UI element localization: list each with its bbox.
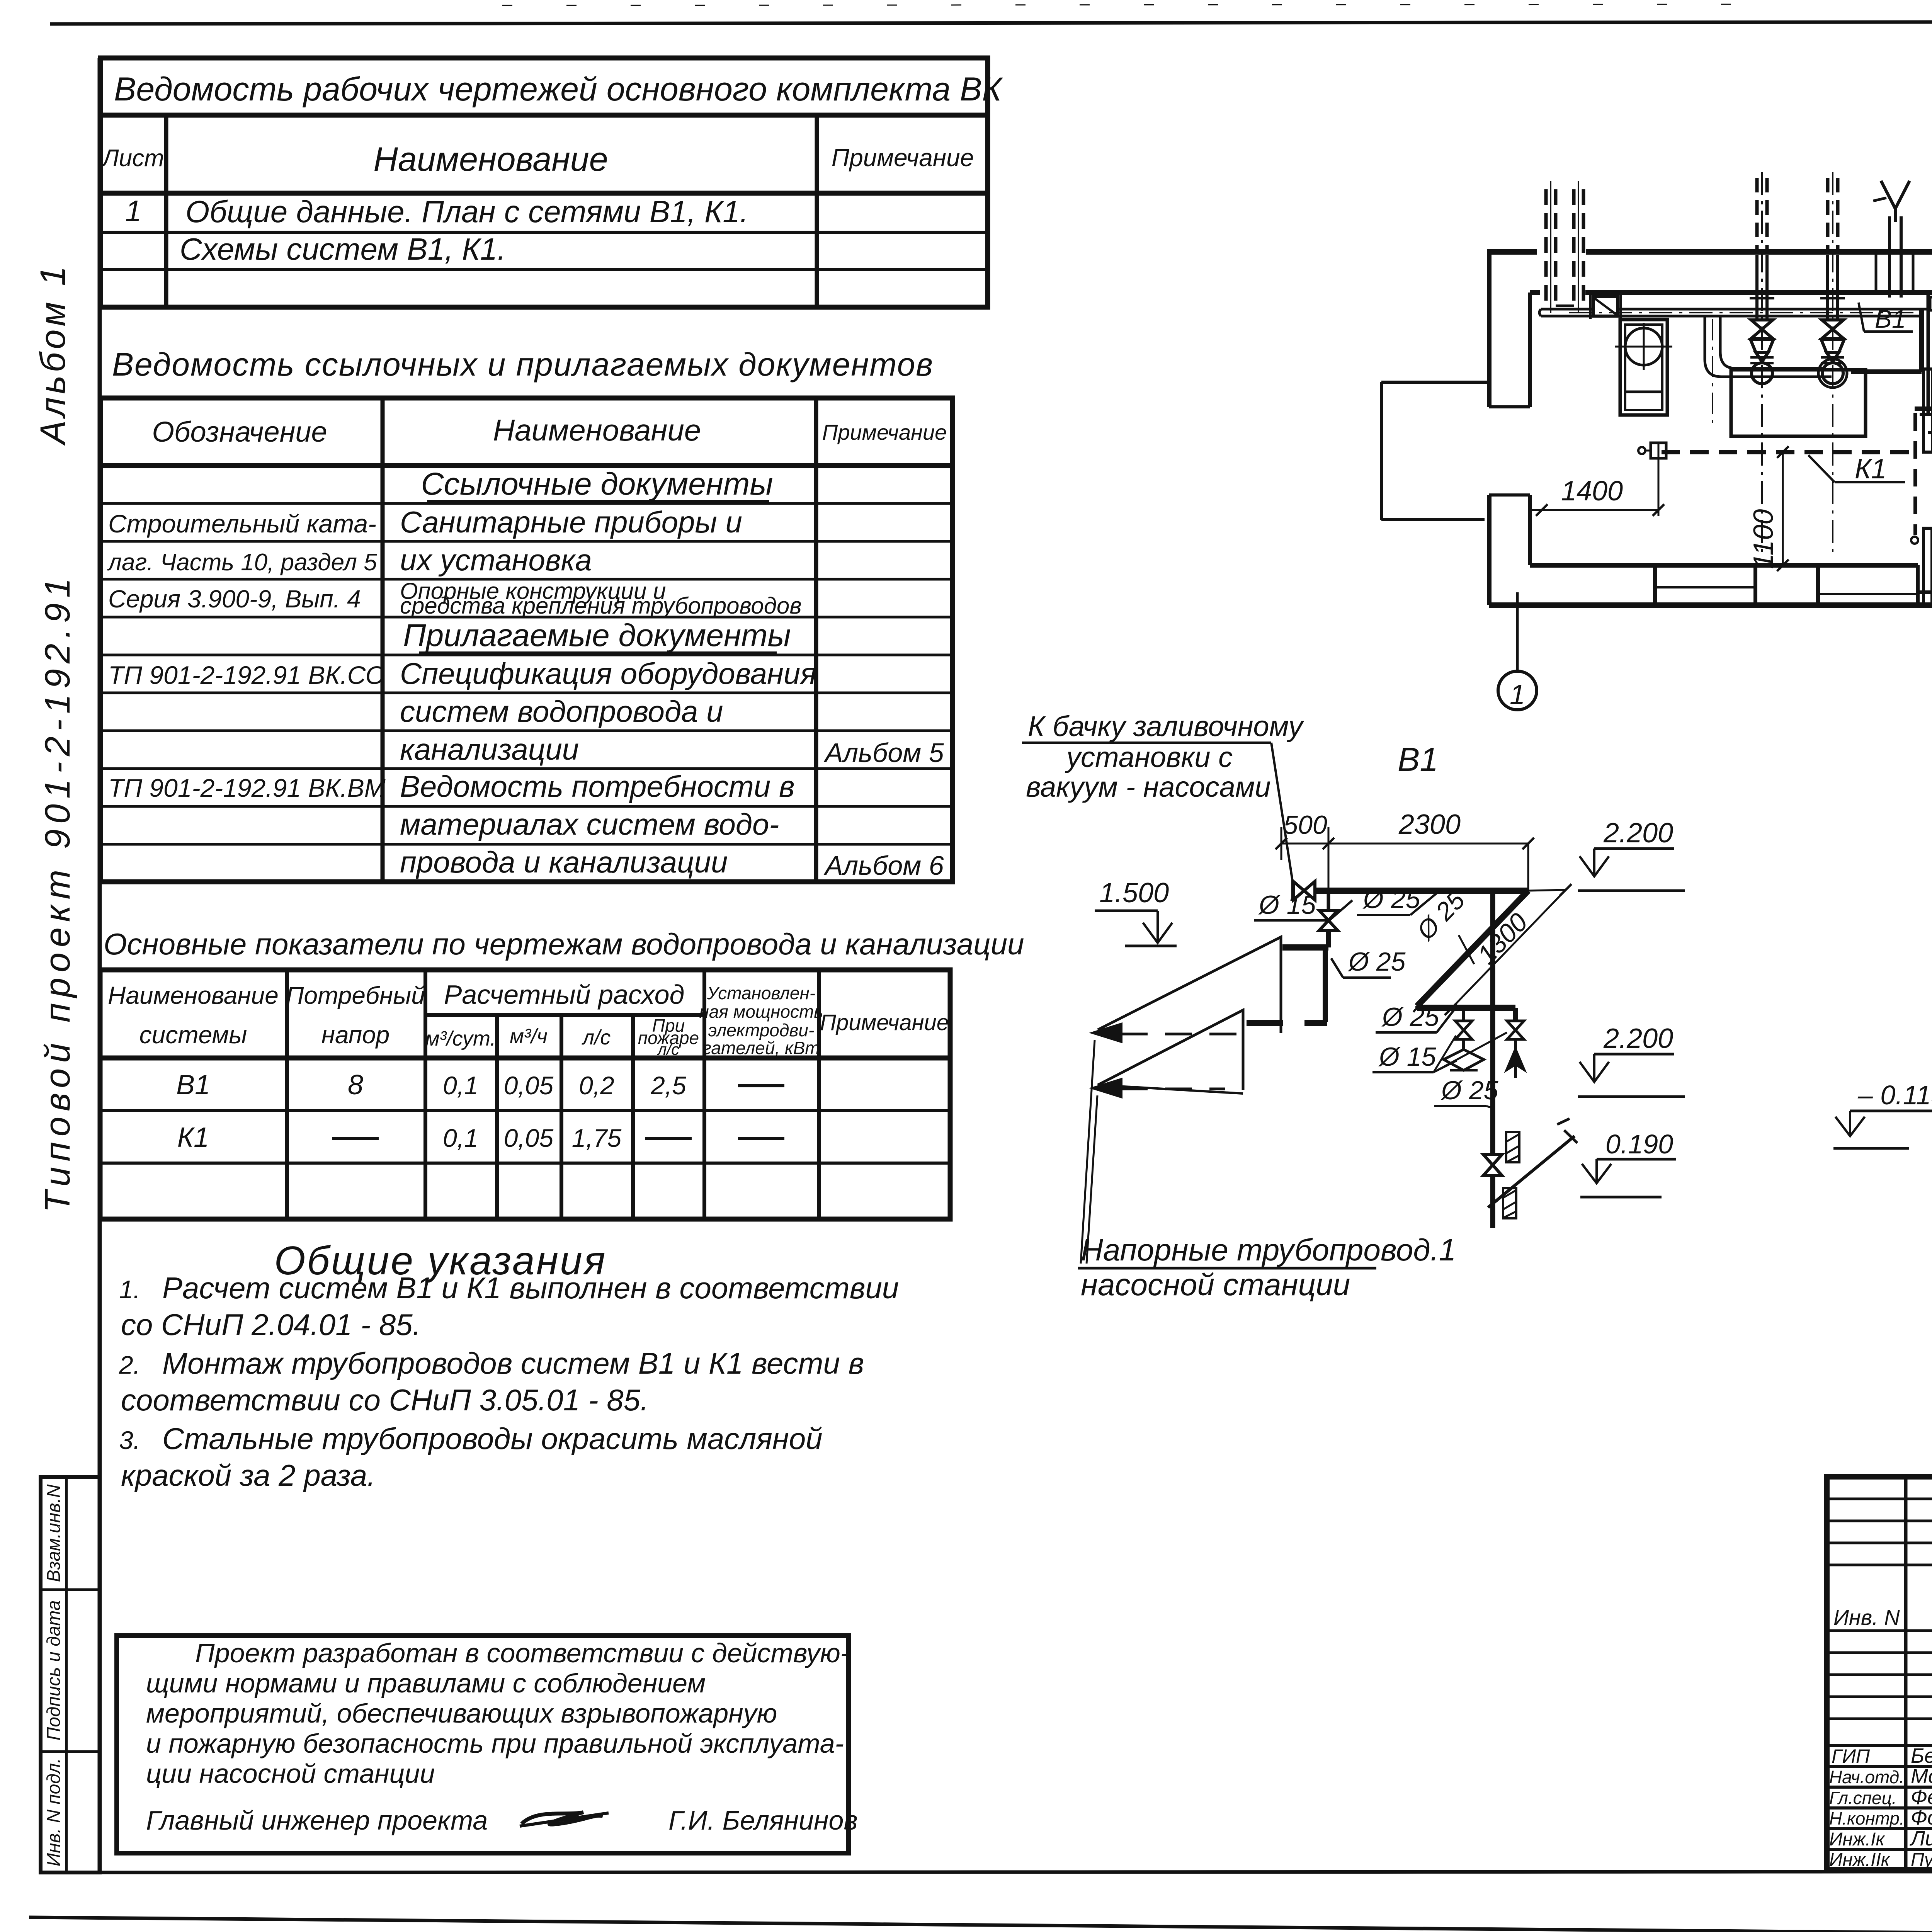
svg-text:м³/сут.: м³/сут.	[425, 1027, 496, 1050]
svg-text:Альбом 1: Альбом 1	[33, 263, 73, 446]
svg-text:щими нормами и правилами с: щими нормами и правилами с соблюдением	[146, 1668, 706, 1698]
B1 branch valve 1	[1444, 1008, 1484, 1070]
frame bottom line	[41, 1871, 1932, 1872]
svg-text:Белянинов: Белянинов	[1911, 1744, 1932, 1767]
plan: pilaster lower	[1923, 528, 1932, 604]
svg-text:Инж.IIк: Инж.IIк	[1829, 1850, 1891, 1870]
plan: pump unit 1 column	[1750, 172, 1774, 553]
svg-text:системы: системы	[139, 1021, 247, 1049]
plan: pump unit 2 column	[1820, 172, 1845, 553]
svg-text:Лист: Лист	[101, 145, 164, 172]
svg-text:Наименование: Наименование	[493, 413, 701, 447]
svg-text:К1: К1	[1855, 454, 1886, 485]
B1 main top pipe	[1315, 888, 1528, 894]
svg-text:Пустовалова: Пустовалова	[1911, 1850, 1932, 1870]
svg-text:Гл.спец.: Гл.спец.	[1829, 1788, 1897, 1808]
title block inv label	[1833, 1605, 1900, 1629]
B1 label d25 riser	[1434, 1076, 1498, 1108]
B1 diagonal pipe	[1417, 891, 1528, 1009]
svg-text:Установлен-: Установлен-	[707, 983, 815, 1003]
svg-text:л/с: л/с	[582, 1026, 611, 1049]
svg-text:ции насосной станции: ции насосной станции	[146, 1759, 435, 1789]
svg-text:Н.контр.: Н.контр.	[1829, 1808, 1905, 1828]
svg-text:ТП 901-2-192.91 ВК.ВМ: ТП 901-2-192.91 ВК.ВМ	[108, 774, 386, 802]
svg-text:Фомина: Фомина	[1911, 1806, 1932, 1829]
svg-text:краской за 2 раза.: краской за 2 раза.	[121, 1458, 376, 1492]
svg-text:Инж.Iк: Инж.Iк	[1829, 1829, 1885, 1850]
svg-text:Федотов: Федотов	[1911, 1786, 1932, 1809]
svg-text:0,1: 0,1	[443, 1071, 478, 1100]
svg-text:0,05: 0,05	[504, 1071, 554, 1100]
plan: B1 label	[1859, 303, 1913, 333]
svg-text:2,5: 2,5	[650, 1071, 686, 1100]
svg-text:8: 8	[348, 1070, 363, 1100]
svg-text:1.500: 1.500	[1099, 878, 1169, 908]
plan: left wall lower corner	[1489, 495, 1530, 605]
svg-text:Общие данные. План с сетям: Общие данные. План с сетями В1, К1.	[185, 194, 748, 229]
svg-text:– 0.115: – 0.115	[1857, 1080, 1932, 1110]
svg-text:Подпись и дата: Подпись и дата	[44, 1600, 64, 1740]
plan: pressure riser pipes dashed pair 2	[1574, 181, 1583, 313]
B1 elevation 0.190	[1580, 1129, 1676, 1197]
svg-text:Потребный: Потребный	[286, 981, 425, 1009]
table: vedomost rabochih chertezhey	[100, 58, 1003, 307]
B1 lower horizontal pipe	[1417, 1008, 1515, 1020]
plan: axis markers B A 1 2	[1498, 280, 1932, 710]
svg-text:провода и канализации: провода и канализации	[400, 845, 728, 879]
svg-text:Взам.инв.N: Взам.инв.N	[44, 1484, 64, 1582]
project note box	[117, 1636, 858, 1853]
svg-text:их установка: их установка	[400, 543, 592, 577]
svg-text:Ссылочные документы: Ссылочные документы	[421, 466, 773, 502]
svg-text:средства крепления трубопров: средства крепления трубопроводов	[400, 593, 802, 619]
B1 pressure pipe triangle 2	[1093, 1010, 1243, 1097]
B1 wall hatch	[1503, 1132, 1519, 1218]
plan: pump pedestal	[1731, 370, 1866, 436]
svg-text:1400: 1400	[1561, 476, 1623, 507]
svg-text:насосной станции: насосной станции	[1081, 1267, 1350, 1302]
svg-text:Альбом 6: Альбом 6	[823, 850, 944, 881]
svg-text:ТП 901-2-192.91 ВК.СО: ТП 901-2-192.91 ВК.СО	[108, 661, 385, 689]
svg-text:Проект разработан в соответс: Проект разработан в соответствии с дейст…	[195, 1638, 849, 1668]
plan: left wall upper	[1489, 249, 1530, 407]
svg-text:установки с: установки с	[1065, 741, 1233, 773]
plan: B1 pipe corner down to pumps	[1851, 309, 1929, 372]
B1 label d25 drop	[1331, 947, 1406, 978]
B1 diagonal dim 1300	[1445, 884, 1571, 1015]
title block outer	[1827, 1477, 1932, 1870]
left margin stamp boxes	[41, 1477, 100, 1872]
svg-text:Г.И. Белянинов: Г.И. Белянинов	[668, 1805, 858, 1835]
svg-text:500: 500	[1283, 810, 1327, 840]
plan: K1 horizontal dashed pipe	[1638, 443, 1915, 458]
plan: suction pipe B1 horizontal	[1539, 294, 1922, 319]
svg-text:Линкина: Линкина	[1910, 1827, 1932, 1850]
svg-text:гателей, кВт: гателей, кВт	[702, 1038, 820, 1058]
svg-text:0.190: 0.190	[1605, 1129, 1673, 1159]
svg-text:Типовой проект 901-2-192.9: Типовой проект 901-2-192.91	[38, 573, 77, 1213]
plan: top wall	[1489, 252, 1932, 293]
B1 dim 500 2300	[1276, 809, 1534, 893]
svg-text:2300: 2300	[1398, 809, 1461, 840]
svg-text:1,75: 1,75	[572, 1124, 622, 1152]
svg-text:и пожарную безопасность при: и пожарную безопасность при правильной э…	[146, 1728, 844, 1759]
svg-text:0,1: 0,1	[443, 1124, 478, 1152]
title block ladder rows	[1827, 1499, 1932, 1849]
svg-text:1100: 1100	[1748, 509, 1779, 569]
svg-text:Монтаж трубопроводов систе: Монтаж трубопроводов систем В1 и К1 вест…	[162, 1346, 864, 1380]
svg-text:л/с: л/с	[656, 1040, 679, 1058]
svg-text:3.: 3.	[119, 1426, 140, 1454]
svg-text:электродви-: электродви-	[708, 1020, 815, 1040]
svg-text:2.: 2.	[119, 1350, 140, 1379]
svg-text:Наименование: Наименование	[373, 140, 608, 178]
svg-text:Обозначение: Обозначение	[152, 416, 327, 448]
title block vertical dividers	[1906, 1477, 1932, 1870]
svg-text:Прилагаемые документы: Прилагаемые документы	[403, 618, 791, 653]
svg-text:1.: 1.	[119, 1275, 140, 1304]
svg-text:Ø 15: Ø 15	[1258, 890, 1316, 920]
title block signature labels	[1829, 1744, 1932, 1870]
svg-text:Ø 15: Ø 15	[1378, 1042, 1436, 1071]
svg-text:лаг. Часть 10, раздел 5: лаг. Часть 10, раздел 5	[107, 549, 377, 576]
plan: dim 1400	[1530, 458, 1664, 516]
svg-text:Ø 25: Ø 25	[1381, 1002, 1439, 1032]
svg-text:К1: К1	[177, 1122, 209, 1153]
svg-text:вакуум - насосами: вакуум - насосами	[1026, 771, 1271, 803]
B1 riser valve	[1483, 1155, 1502, 1175]
sheet top border line	[50, 21, 1932, 24]
B1 label d25 after valve	[1357, 884, 1437, 915]
plan: pressure riser pipes dashed pair 1	[1546, 181, 1556, 313]
plan: dim 1100	[1748, 446, 1789, 571]
svg-text:Ведомость ссылочных и прилаг: Ведомость ссылочных и прилагаемых докуме…	[112, 346, 934, 383]
svg-text:Схемы систем В1, К1.: Схемы систем В1, К1.	[180, 232, 506, 266]
plan: K1 label	[1808, 454, 1905, 485]
svg-text:Примечание: Примечание	[832, 144, 974, 172]
svg-text:К бачку заливочному: К бачку заливочному	[1028, 710, 1304, 742]
left frame vertical line	[98, 58, 102, 1872]
svg-text:канализации: канализации	[400, 732, 579, 766]
plan: drainage channel	[1920, 414, 1932, 433]
B1 riser vertical	[1490, 891, 1495, 1228]
B1 elevation 2.200 upper	[1578, 818, 1685, 891]
plan: interior partition	[1928, 293, 1932, 413]
plan: fan unit box	[1615, 320, 1672, 415]
svg-text:Инв. N подл.: Инв. N подл.	[44, 1758, 64, 1867]
svg-text:В1: В1	[176, 1070, 210, 1100]
B1 note k bachku	[1022, 710, 1304, 881]
B1 elevation 2.200 lower	[1578, 1023, 1685, 1097]
svg-text:мероприятий, обеспечивающих в: мероприятий, обеспечивающих взрывопожарн…	[146, 1698, 777, 1728]
plan: suction manifold elbow	[1705, 316, 1832, 425]
svg-text:Расчетный расход: Расчетный расход	[444, 980, 685, 1010]
B1 pressure pipe triangle 1	[1093, 937, 1281, 1042]
svg-text:0,2: 0,2	[579, 1071, 614, 1100]
B1 elevation mark 1.500	[1095, 878, 1177, 946]
svg-text:Ведомость рабочих чертежей осн: Ведомость рабочих чертежей основного ком…	[114, 71, 1003, 108]
B1 label d25 diagonal	[1411, 886, 1474, 964]
svg-text:В1: В1	[1875, 304, 1906, 333]
svg-text:соответствии со СНиП 3.05: соответствии со СНиП 3.05.01 - 85.	[121, 1383, 649, 1417]
svg-text:напор: напор	[321, 1021, 390, 1049]
svg-text:2.200: 2.200	[1603, 1023, 1673, 1054]
K1 elevation -0.115	[1833, 1080, 1932, 1148]
svg-text:Строительный ката-: Строительный ката-	[108, 509, 376, 538]
B1 valve at inlet	[1293, 880, 1315, 901]
table: osnovnye pokazateli	[100, 927, 1024, 1219]
plan: St K1 dashed pipe	[1915, 405, 1932, 412]
svg-text:1: 1	[1510, 679, 1525, 710]
svg-text:Спецификация оборудования: Спецификация оборудования	[400, 656, 816, 690]
B1 label d15 inlet	[1254, 890, 1352, 920]
svg-text:Серия 3.900-9, Вып. 4: Серия 3.900-9, Вып. 4	[108, 585, 361, 613]
svg-text:Ø 25: Ø 25	[1362, 884, 1420, 914]
vertical label Tipovoy proekt 901-2-192.91	[38, 573, 77, 1213]
svg-text:Санитарные приборы и: Санитарные приборы и	[400, 505, 742, 539]
svg-text:В1: В1	[1398, 741, 1438, 778]
plan: left annex	[1381, 382, 1489, 520]
plan: K1 vertical dashed pipe	[1911, 413, 1918, 544]
sheet bottom edge line	[29, 1917, 1932, 1932]
svg-text:Основные показатели по черт: Основные показатели по чертежам водопров…	[104, 927, 1024, 961]
general notes text block	[119, 1238, 899, 1492]
table: vedomost ssylochnyh dokumentov	[100, 346, 952, 882]
svg-text:Москалец: Москалец	[1911, 1765, 1932, 1788]
svg-text:Нач.отд.: Нач.отд.	[1829, 1767, 1904, 1787]
svg-text:материалах систем водо-: материалах систем водо-	[400, 807, 779, 841]
svg-text:Наименование: Наименование	[108, 981, 279, 1009]
svg-text:м³/ч: м³/ч	[510, 1025, 548, 1048]
svg-text:Главный инженер проекта: Главный инженер проекта	[146, 1805, 488, 1835]
svg-text:ная мощность: ная мощность	[699, 1002, 823, 1022]
B1 schema title	[1398, 741, 1438, 778]
B1 label d15 branches	[1372, 1032, 1507, 1072]
svg-text:Расчет систем В1 и К1 вы: Расчет систем В1 и К1 выполнен в соответ…	[162, 1271, 899, 1305]
svg-text:Примечание: Примечание	[822, 420, 947, 444]
svg-text:1: 1	[125, 195, 141, 228]
svg-text:0,05: 0,05	[504, 1124, 554, 1152]
B1 drop to tank	[1247, 891, 1338, 1023]
svg-text:Ведомость потребности в: Ведомость потребности в	[400, 769, 795, 803]
B1 branch valve 2	[1507, 1020, 1524, 1078]
B1 ground diagonal	[1488, 1119, 1577, 1207]
svg-text:Альбом 5: Альбом 5	[823, 738, 944, 768]
plan: bottom wall	[1489, 565, 1932, 605]
B1 label d25 lower	[1376, 1002, 1454, 1032]
svg-text:систем водопровода и: систем водопровода и	[400, 694, 723, 728]
svg-text:Ø 25: Ø 25	[1440, 1076, 1498, 1105]
svg-text:Напорные трубопровод.1: Напорные трубопровод.1	[1081, 1233, 1456, 1267]
plan: pilaster upper	[1923, 369, 1932, 452]
svg-text:Стальные трубопроводы окр: Стальные трубопроводы окрасить масляной	[162, 1422, 823, 1456]
svg-text:Инв. N: Инв. N	[1833, 1605, 1900, 1629]
scan dotted artifact top	[502, 4, 1777, 5]
svg-text:со СНиП 2.04.01 - 85.: со СНиП 2.04.01 - 85.	[121, 1308, 421, 1342]
svg-text:2.200: 2.200	[1603, 818, 1673, 849]
plan: vent pipe through wall	[1873, 181, 1913, 298]
svg-text:ГИП: ГИП	[1832, 1745, 1870, 1767]
svg-text:Ø 25: Ø 25	[1348, 947, 1406, 976]
vertical label Album 1	[33, 263, 73, 446]
B1 napornye label	[1078, 1040, 1456, 1302]
svg-text:Примечание: Примечание	[820, 1010, 949, 1035]
